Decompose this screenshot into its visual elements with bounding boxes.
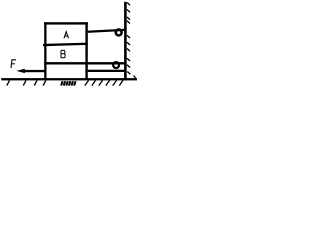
ring 1 (upper wall anchor): [116, 30, 122, 36]
label B: [61, 50, 65, 57]
floor hatching sparse left: [7, 80, 46, 85]
label A: [64, 32, 69, 39]
label F: [11, 60, 16, 68]
wall hatching: [127, 3, 136, 79]
floor line: [1, 78, 137, 80]
ring 2 (lower wall anchor): [113, 62, 119, 68]
force F arrow shaft: [24, 70, 45, 72]
background: [0, 0, 140, 94]
floor hatching sparse right: [85, 80, 123, 85]
divider A/B: [43, 43, 88, 47]
force F arrowhead: [16, 69, 25, 73]
floor hatching dense middle band: [61, 81, 76, 85]
wall (right, vertical): [124, 2, 127, 81]
divider B / rope to ring2 and wall: [44, 62, 124, 64]
rope from A over ring1 to wall: [88, 29, 125, 33]
block stack outer box: sides reach the floor: [44, 22, 88, 78]
lower rope from box to wall: [88, 70, 125, 72]
